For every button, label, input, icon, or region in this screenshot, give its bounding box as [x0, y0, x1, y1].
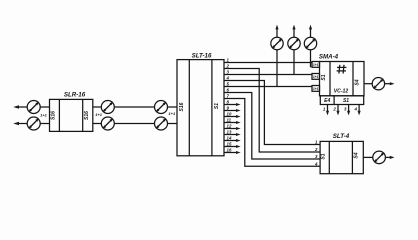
- svg-text:14: 14: [227, 136, 232, 141]
- wire SLR-16 to F4: [93, 123, 102, 125]
- pin 10 spare arrow: [224, 115, 241, 118]
- svg-text:5: 5: [227, 82, 230, 87]
- svg-text:3: 3: [344, 107, 347, 112]
- optical line symbol F2 (west bottom): [27, 117, 40, 130]
- svg-text:11: 11: [227, 118, 232, 123]
- pin 8 spare arrow: [224, 103, 241, 106]
- svg-text:S4: S4: [355, 79, 361, 85]
- svg-text:S16: S16: [51, 111, 57, 120]
- wire F4 to F6 (bottom line span): [114, 123, 154, 125]
- protection switch box P2 (1+1): [312, 74, 320, 80]
- pin 14 spare arrow: [224, 139, 241, 142]
- regenerator SLR-16 box: [50, 99, 93, 131]
- optical line symbol F8 (SLT-4 east): [373, 151, 386, 164]
- svg-text:12: 12: [227, 124, 232, 129]
- optical line symbol T3: [304, 25, 316, 68]
- line terminal SLT-16 box: [177, 60, 224, 156]
- wire west output bottom: [16, 123, 27, 125]
- arrow east SMA-4: [385, 82, 395, 85]
- wire pin2 to SLT-4 input 2: [224, 69, 320, 153]
- pin 9 spare arrow: [224, 109, 241, 112]
- wire pin3 to protection box P2: [224, 74, 312, 76]
- svg-text:E4: E4: [324, 98, 330, 104]
- svg-text:VC-12: VC-12: [334, 89, 349, 95]
- optical line symbol F1 (west top): [27, 101, 40, 114]
- optical line symbol F7 (SMA-4 east): [372, 78, 384, 90]
- svg-text:15: 15: [227, 142, 232, 147]
- svg-text:S1: S1: [214, 103, 220, 109]
- wire pin1 to protection box P1: [224, 62, 312, 64]
- svg-text:1+1: 1+1: [95, 112, 103, 117]
- svg-text:9: 9: [227, 106, 230, 111]
- svg-text:16: 16: [227, 148, 232, 153]
- wire F1 to SLR-16: [40, 106, 49, 108]
- optical line symbol F3: [101, 101, 114, 114]
- wire SLR-16 to F3: [93, 106, 102, 108]
- svg-text:1: 1: [323, 107, 326, 112]
- svg-text:8: 8: [227, 100, 230, 105]
- protection switch box P3 (1+1): [312, 86, 320, 92]
- svg-text:6: 6: [227, 88, 230, 93]
- svg-text:4: 4: [226, 76, 230, 81]
- svg-text:4: 4: [314, 162, 318, 167]
- wire SLT-4 to F8: [363, 156, 373, 158]
- svg-text:1+1: 1+1: [313, 75, 319, 79]
- svg-text:S4: S4: [354, 152, 360, 158]
- pin 13 spare arrow: [224, 133, 241, 136]
- svg-text:S1: S1: [321, 153, 327, 159]
- protection switch box P1 (1+1): [312, 62, 320, 68]
- arrow west top: [13, 105, 19, 109]
- wire pin7 to SLT-4 input 4: [224, 99, 320, 167]
- wire pin6 to SLT-4 input 3: [224, 93, 320, 160]
- svg-text:1+1: 1+1: [40, 112, 48, 117]
- svg-text:S1: S1: [321, 74, 327, 80]
- wire pin5 to protection box P3: [224, 86, 312, 88]
- optical line symbol F6: [155, 117, 168, 130]
- svg-text:2: 2: [226, 64, 230, 69]
- tributary output arrow 3: [347, 105, 350, 116]
- wire F6 to SLT-16: [168, 123, 178, 125]
- pin 12 spare arrow: [224, 127, 241, 130]
- svg-text:S16: S16: [179, 102, 185, 111]
- svg-text:SMA-4: SMA-4: [319, 54, 339, 61]
- optical line symbol T2: [288, 25, 300, 75]
- svg-text:2: 2: [314, 147, 318, 152]
- wire F2 to SLR-16: [40, 123, 49, 125]
- svg-text:3: 3: [227, 70, 230, 75]
- svg-text:SLT-16: SLT-16: [192, 52, 212, 59]
- svg-text:4: 4: [353, 107, 357, 112]
- svg-text:S1: S1: [343, 98, 349, 104]
- pin number labels 1-16: [226, 58, 232, 153]
- pin 16 spare arrow: [224, 151, 241, 154]
- wire pin4 to SLT-4 input 1: [224, 81, 320, 145]
- svg-text:13: 13: [227, 130, 232, 135]
- optical line symbol T1 (tributary west): [271, 25, 283, 87]
- svg-text:SLR-16: SLR-16: [64, 92, 86, 99]
- line terminal SLT-4 box: [320, 141, 363, 173]
- svg-text:1+1: 1+1: [313, 63, 319, 67]
- svg-text:1+1: 1+1: [168, 111, 176, 116]
- svg-text:1: 1: [227, 58, 230, 63]
- pin 15 spare arrow: [224, 145, 241, 148]
- optical line symbol F4: [101, 117, 114, 130]
- arrow east SLT-4: [385, 156, 394, 159]
- svg-text:10: 10: [227, 112, 232, 117]
- cross-connect matrix symbol: [337, 65, 347, 74]
- arrow west bottom: [13, 122, 19, 126]
- wire F3 to F5 (top line span): [114, 106, 154, 108]
- optical line symbol F5: [155, 101, 168, 114]
- wire F5 to SLT-16: [168, 106, 178, 108]
- svg-text:2: 2: [332, 107, 336, 112]
- add-drop multiplexer SMA-4 box: [320, 62, 365, 96]
- wire SMA-4 to F7: [364, 83, 372, 85]
- svg-text:SLT-4: SLT-4: [333, 133, 350, 140]
- tributary output arrow 4: [358, 105, 361, 116]
- tributary output arrow 1: [326, 105, 329, 116]
- tributary unit row E4 / S1: [320, 96, 363, 105]
- svg-text:S16: S16: [84, 111, 90, 120]
- svg-text:1+1: 1+1: [313, 87, 319, 91]
- wire west output top: [16, 106, 27, 108]
- svg-text:7: 7: [227, 94, 230, 99]
- pin 11 spare arrow: [224, 121, 241, 124]
- tributary output arrow 2: [336, 105, 339, 116]
